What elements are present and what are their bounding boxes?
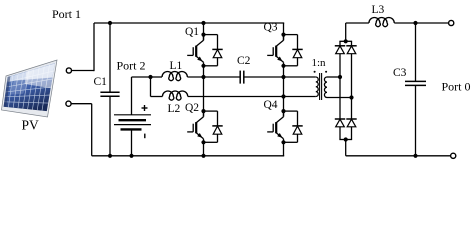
svg-text:PV: PV — [22, 117, 40, 132]
transformer T1 1:n — [284, 71, 352, 100]
capacitor C1 — [100, 21, 119, 158]
svg-text:Q1: Q1 — [185, 26, 199, 38]
svg-text:C3: C3 — [393, 67, 407, 79]
transistor Q1 with diode — [185, 26, 223, 68]
wire Port1- to bottom rail — [71, 104, 92, 156]
capacitor C2 — [204, 71, 286, 84]
svg-text:Q3: Q3 — [264, 21, 278, 33]
label Port 1 — [52, 7, 81, 21]
wire bridge top to L3 — [345, 23, 347, 41]
transistor Q2 with diode — [185, 102, 223, 145]
wire leg A middle — [201, 66, 205, 117]
svg-text:L3: L3 — [372, 4, 385, 16]
wire leg B lower — [283, 142, 285, 156]
wire Port1+ to top rail — [72, 23, 95, 71]
terminal Port1 + — [66, 68, 71, 73]
label L3 — [372, 4, 385, 16]
svg-text:Port 1: Port 1 — [52, 7, 81, 21]
svg-text:L2: L2 — [168, 103, 181, 115]
wire bridge bottom to rail — [345, 140, 347, 156]
svg-text:1:n: 1:n — [312, 57, 327, 69]
inductor L1 — [151, 72, 204, 81]
wire leg A lower — [201, 142, 205, 158]
svg-text:Q2: Q2 — [185, 102, 199, 114]
wire leg B middle — [281, 66, 285, 117]
label C1 — [94, 76, 108, 88]
terminal Port0 + — [449, 20, 454, 25]
svg-text:L1: L1 — [170, 60, 183, 72]
transistor Q4 with diode — [264, 99, 303, 144]
inductor L3 — [346, 18, 449, 27]
label L2 — [168, 103, 181, 115]
label C3 — [393, 67, 407, 79]
transistor Q3 with diode — [264, 21, 303, 68]
inductor L2 — [151, 77, 284, 100]
node battery-L1-L2 junction — [148, 75, 152, 79]
terminal Port1 - — [66, 101, 71, 106]
label L1 — [170, 60, 183, 72]
label PV — [22, 117, 40, 132]
wire bottom rail right — [346, 155, 451, 157]
label C2 — [237, 55, 251, 67]
diode bridge rectifier D1-D4 — [335, 39, 357, 141]
svg-text:Port 2: Port 2 — [117, 59, 146, 73]
label Port 2 — [117, 59, 146, 73]
label Port 0 — [442, 79, 471, 93]
svg-text:Q4: Q4 — [264, 99, 278, 111]
svg-text:C1: C1 — [94, 76, 108, 88]
wire bottom rail left — [92, 155, 285, 157]
terminal Port0 - — [451, 153, 456, 158]
svg-text:Port 0: Port 0 — [442, 79, 471, 93]
wire leg A upper — [201, 21, 205, 40]
svg-text:C2: C2 — [237, 55, 251, 67]
battery B1 (Port 2) — [114, 77, 151, 158]
label 1:n — [312, 57, 327, 69]
capacitor C3 — [405, 23, 426, 158]
wire top rail — [94, 22, 284, 24]
PV solar panel — [2, 60, 58, 117]
wire leg B upper — [283, 23, 285, 40]
